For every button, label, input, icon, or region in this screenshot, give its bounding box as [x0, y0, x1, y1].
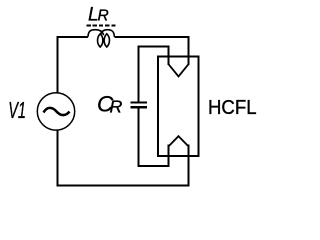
svg-text:V1: V1 [8, 98, 26, 124]
svg-text:R: R [110, 96, 123, 116]
svg-text:HCFL: HCFL [208, 97, 257, 119]
svg-text:R: R [98, 7, 109, 24]
